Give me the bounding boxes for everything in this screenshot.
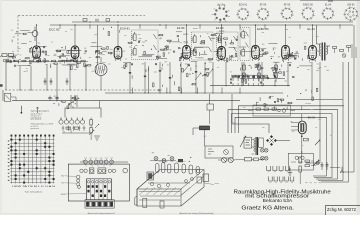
- component group: dial lamp parts: [152, 153, 192, 162]
- capacitor C52: [49, 96, 51, 98]
- wire: bundle bend: [321, 181, 349, 183]
- component group: AF feedback parts: [241, 64, 299, 83]
- wire: vertical drop: [225, 62, 227, 86]
- svg-text:Graetz KG Altena.: Graetz KG Altena.: [241, 205, 294, 211]
- wire: bus y85.7: [210, 85, 290, 87]
- heater pin circle: [104, 160, 108, 164]
- wire: vertical drop: [148, 66, 150, 93]
- mains dropper: [83, 126, 85, 132]
- antenna lead-in: [20, 106, 22, 113]
- svg-text:EF 89: EF 89: [177, 26, 185, 30]
- switch position matrix grid: [10, 136, 55, 184]
- chassis deck hatching: [139, 188, 190, 196]
- IF transformer Fi3: [217, 32, 239, 61]
- wire: anode feed: [285, 25, 287, 46]
- wire: vertical drop: [159, 62, 161, 93]
- tube socket diagram V5 EABC80 (top view): [301, 7, 315, 21]
- bus components: [83, 19, 87, 22]
- heater pin circle: [94, 160, 98, 164]
- bleeder parts: [66, 127, 71, 129]
- drawing number box: [325, 205, 360, 207]
- output transformer primary: [319, 44, 321, 56]
- wires pot network: [218, 159, 222, 161]
- socket pair D: [108, 169, 111, 172]
- speaker jacks (x-circles): [260, 148, 264, 152]
- svg-text:EF 89: EF 89: [284, 4, 291, 7]
- switch contacts S1: [70, 95, 72, 107]
- triode section circle V1 grid: [32, 31, 38, 37]
- EM85 leads: [301, 114, 303, 121]
- ground symbol: [289, 168, 291, 173]
- wire: bundle bend: [313, 175, 327, 177]
- wire: y99.3 horizontal: [296, 98, 343, 100]
- DIN socket pair A: [80, 169, 83, 172]
- heater pin circle: [99, 160, 103, 164]
- resistor chain R-dropper: [90, 120, 93, 126]
- svg-text:UKW: UKW: [61, 194, 66, 196]
- panel leader labels: [83, 159, 86, 161]
- tube V4 EF89: [218, 47, 226, 60]
- coupling capacitor block: [207, 104, 214, 110]
- resistor R42: [254, 158, 259, 161]
- wire: vertical drop: [274, 80, 276, 86]
- motor box M: [205, 146, 233, 158]
- matrix contact dots: [10, 139, 54, 184]
- component group: IF stage 1 parts: [128, 34, 188, 60]
- matrix column heads: [11, 135, 55, 137]
- wire: anode feed: [117, 25, 119, 46]
- wire: bus y93: [105, 92, 283, 94]
- svg-text:24 1,3 205 V: 24 1,3 205 V: [31, 119, 42, 121]
- chassis IF cans: [203, 174, 209, 182]
- wire: nested loop 2: [232, 114, 333, 134]
- svg-text:Belcanto 53A: Belcanto 53A: [263, 198, 293, 203]
- resistor chain vertical: [258, 62, 260, 82]
- chassis transformer block: [147, 172, 154, 180]
- component group: coupling parts V1 stage: [30, 46, 69, 56]
- wire: vertical drop: [144, 62, 146, 93]
- coil box L-osc: [240, 28, 250, 61]
- DIN socket C: [98, 168, 106, 174]
- component value labels (illegible at scale): [9, 29, 331, 146]
- wire: vertical drop: [204, 62, 206, 93]
- svg-text:ECH 81: ECH 81: [120, 27, 130, 31]
- terminal screws top row: [87, 181, 90, 184]
- fuse tray: [85, 200, 114, 208]
- speaker terminal block: [86, 179, 111, 200]
- wire: vertical drop: [56, 66, 58, 101]
- potentiometer P2: [228, 158, 233, 163]
- wire EM85 cathode chain: [301, 134, 303, 157]
- wire bridge to right: [277, 140, 290, 142]
- chassis front edge lines: [139, 199, 180, 201]
- chassis tube cylinder: [156, 164, 159, 173]
- svg-text:Ansicht von hinten (Rückwand a: Ansicht von hinten (Rückwand ab): [180, 212, 214, 215]
- svg-text:UKW TA TB M L K U A N: UKW TA TB M L K U A N: [12, 185, 56, 188]
- tuning capacitor C-gang: [95, 64, 107, 76]
- resistor R41: [245, 158, 252, 161]
- resistor network box (loop area): [253, 105, 291, 116]
- wire: vertical drop: [30, 66, 32, 90]
- potentiometer arrow: [315, 140, 320, 145]
- wire: anode feed: [255, 25, 257, 46]
- wire mesh horizontal (component band): [9, 30, 311, 66]
- wire: vertical drop: [19, 66, 21, 90]
- phono socket pair 2: [77, 183, 80, 186]
- wire: bus y100.7: [12, 100, 240, 102]
- tube socket diagram V1 ECC81 (top view): [212, 5, 230, 23]
- component group: RC band left under V1: [7, 56, 91, 70]
- wire: bus stubs: [132, 88, 134, 94]
- wire: left return loop: [5, 62, 7, 90]
- chassis tube cylinder: [182, 164, 185, 173]
- chassis tube cylinder: [189, 165, 193, 174]
- chassis inner edges: [137, 170, 160, 190]
- heater group row2: [269, 177, 273, 182]
- Y ground symbol right: [341, 167, 343, 170]
- tube V2 ECH81: [114, 47, 122, 60]
- DIN socket B: [89, 168, 94, 174]
- resistor chain vertical: [275, 62, 277, 82]
- wire: vertical drop: [287, 62, 289, 86]
- wire: vertical drop: [46, 64, 48, 90]
- output transformer Tr2 core: [321, 43, 323, 61]
- chassis tube cylinder: [168, 164, 171, 173]
- svg-text:EL 84: EL 84: [308, 27, 316, 31]
- wire: bundle bend: [314, 177, 332, 179]
- chassis pointer line: [204, 183, 214, 185]
- wire: bundle bend: [340, 171, 354, 173]
- power transformer Tr1 loop: [65, 108, 101, 118]
- svg-text:Spannungsangaben: Spannungsangaben: [31, 111, 50, 113]
- wire: corner loop to output: [232, 94, 269, 133]
- output transformer Tr3 core: [255, 137, 257, 155]
- wire: anode feed: [221, 25, 223, 46]
- svg-text:Zchg.Nr. 60272: Zchg.Nr. 60272: [327, 207, 357, 212]
- wire: vertical drop: [69, 64, 71, 90]
- tube V3 EF89: [183, 46, 191, 60]
- component group: input filter parts: [12, 31, 26, 42]
- chassis knob bumps: [185, 180, 188, 183]
- tube socket diagram V4 EF89 (top view): [280, 7, 293, 20]
- svg-text:gemessen: gemessen: [31, 128, 40, 130]
- phono socket pair 1: [76, 175, 80, 179]
- svg-text:ECC 81: ECC 81: [49, 28, 60, 32]
- wire: y78.3 horizontal: [240, 77, 285, 79]
- electrolytic capacitor bank: [59, 120, 63, 124]
- wire heater line: [80, 161, 128, 163]
- wire: anode feed: [74, 25, 76, 46]
- wire from bus to relay: [209, 94, 211, 104]
- wire: main HT bus top: [50, 24, 353, 26]
- chassis tube cylinder: [196, 167, 199, 175]
- output transformer secondary: [326, 46, 327, 54]
- heater cluster labels: [305, 182, 308, 184]
- component group: mixer stage parts: [84, 46, 112, 57]
- svg-text:ECH 81: ECH 81: [239, 4, 248, 7]
- wire bundle right side: [311, 62, 313, 101]
- chassis left wing: [135, 196, 137, 205]
- svg-text:Taste nicht gedrückt: Taste nicht gedrückt: [25, 191, 43, 194]
- loudspeaker bridge (diamond): [266, 135, 277, 146]
- component group: pushbutton capacitor row: [230, 75, 268, 85]
- lamp wires: [150, 160, 176, 162]
- wire: AVC bus top: [72, 21, 353, 23]
- component group: detector/AF parts: [252, 46, 309, 63]
- driver transformer box: [244, 137, 252, 148]
- wire: vertical drop: [169, 62, 171, 93]
- tube socket diagram V6 EL84 (top view): [321, 7, 334, 20]
- heater labels: [84, 157, 87, 159]
- capacitor C53: [56, 96, 58, 98]
- HT bus hanger stubs: [59, 25, 61, 29]
- relay (sollwert): [200, 126, 210, 130]
- component group: IF stage 2 parts: [194, 34, 238, 62]
- chassis perspective outline: [137, 170, 204, 207]
- switch arrow S2: [240, 136, 246, 147]
- wire: nested loop 3: [235, 117, 327, 133]
- wire: vertical drop: [85, 64, 87, 90]
- IF transformer Fi2: [192, 32, 214, 60]
- pilot lamp cluster: [313, 160, 319, 166]
- tube socket diagram V3 EF89 (top view): [256, 8, 269, 21]
- IF transformer Fi1: [132, 30, 159, 60]
- aerial symbol: [37, 107, 39, 113]
- heater pin circle: [110, 160, 114, 164]
- dial lamps: [154, 157, 158, 161]
- heater resistor parts: [305, 160, 310, 162]
- matrix row labels: [8, 141, 10, 181]
- svg-text:EF 89: EF 89: [260, 4, 267, 7]
- switch arrows mid band: [183, 65, 189, 72]
- chassis leader labels: [159, 160, 162, 162]
- single socket E: [123, 168, 128, 173]
- wire: anode feed: [186, 25, 188, 46]
- mid-vertical component blobs: [129, 72, 131, 74]
- tube V1b ECC81 triode: [71, 46, 79, 59]
- resistor row along y61: [6, 61, 88, 63]
- wire: bundle bend: [306, 162, 320, 164]
- tube V5 EABC80: [252, 46, 260, 60]
- resistor below EM85: [303, 138, 308, 141]
- tube socket diagram V2 ECH81 (top view): [236, 8, 249, 21]
- svg-text:EABC 80: EABC 80: [303, 4, 314, 7]
- rectifier symbols: [62, 126, 64, 132]
- dark tap cluster: [178, 159, 183, 162]
- wires loop to caps: [60, 118, 62, 120]
- vertical from gang to osc: [97, 25, 99, 65]
- terminal dark knobs: [87, 185, 110, 197]
- wire: bundle bend: [316, 178, 338, 180]
- svg-text:Ug Uhg: Ug Uhg: [217, 4, 226, 7]
- component group: osc coil parts: [104, 27, 120, 36]
- tube V1a ECC81 triode: [33, 46, 41, 58]
- heater group row1: [267, 166, 271, 171]
- junction box with lamps: [288, 153, 313, 170]
- Tr3 primary coil: [254, 139, 255, 152]
- wire: bundle bend: [318, 180, 343, 182]
- tube V6 EL84: [309, 46, 317, 60]
- tube EM85 magic eye: [298, 121, 306, 134]
- component group: band wires parts: [153, 81, 196, 91]
- wire: anode feed: [312, 25, 314, 46]
- wire: vertical drop: [195, 62, 197, 93]
- wire: vertical drop: [212, 62, 214, 93]
- svg-text:EM 85: EM 85: [308, 117, 316, 120]
- top edge scan smudge: [300, 0, 360, 2]
- chassis tube cylinder: [175, 163, 179, 173]
- component group: NFB parts: [300, 88, 318, 100]
- svg-text:Band- und Lautsprecheranschl.: Band- und Lautsprecheranschl.: [88, 212, 115, 215]
- heater pin circle: [84, 160, 88, 164]
- resistor chain vertical: [243, 62, 245, 82]
- tube socket diagram V7 EM85 (top view): [343, 7, 358, 22]
- svg-text:EL 84: EL 84: [325, 4, 332, 7]
- pushbutton capacitor row: [231, 74, 268, 76]
- tube V5b diode section: [282, 46, 290, 60]
- psu arrow marks: [89, 130, 94, 135]
- edge component blob: [0, 84, 3, 86]
- heater pin circle: [89, 160, 93, 164]
- hanging capacitors under band: [44, 78, 46, 81]
- chassis legs: [143, 198, 147, 207]
- wire: vertical drop: [180, 62, 182, 93]
- right edge parts row: [333, 47, 337, 49]
- wire: anode feed: [36, 25, 38, 46]
- potentiometer P1: [222, 158, 227, 163]
- antenna input filter: [2, 54, 7, 57]
- wire: cap bank bottom: [62, 132, 91, 134]
- svg-text:EM 85: EM 85: [348, 4, 356, 7]
- wire: vertical drop: [241, 62, 243, 86]
- dashed chassis boundary: [18, 15, 145, 17]
- rear panel plate: [68, 164, 129, 201]
- fuse / switch marks: [95, 124, 99, 128]
- wire psu feed: [99, 101, 101, 108]
- svg-text:EABC 80: EABC 80: [257, 27, 269, 31]
- chassis deck circles: [150, 182, 153, 185]
- input coil: [3, 59, 6, 62]
- wire: nested loop 1: [228, 110, 338, 133]
- svg-text:EF 89: EF 89: [216, 26, 224, 30]
- mains switch box bottom left: [2, 90, 4, 101]
- wire: vertical drop: [261, 62, 263, 86]
- chassis tube cylinder: [162, 163, 165, 173]
- speaker housing box: [259, 138, 264, 147]
- wire: vertical drop: [129, 62, 131, 93]
- component group: AGC line parts: [124, 63, 209, 79]
- wire: nested loop 0 (outer): [239, 106, 345, 133]
- component group: tone network row: [256, 95, 292, 110]
- component group: tone filter parts: [51, 96, 76, 109]
- dashed chassis boundary bottom: [5, 89, 162, 91]
